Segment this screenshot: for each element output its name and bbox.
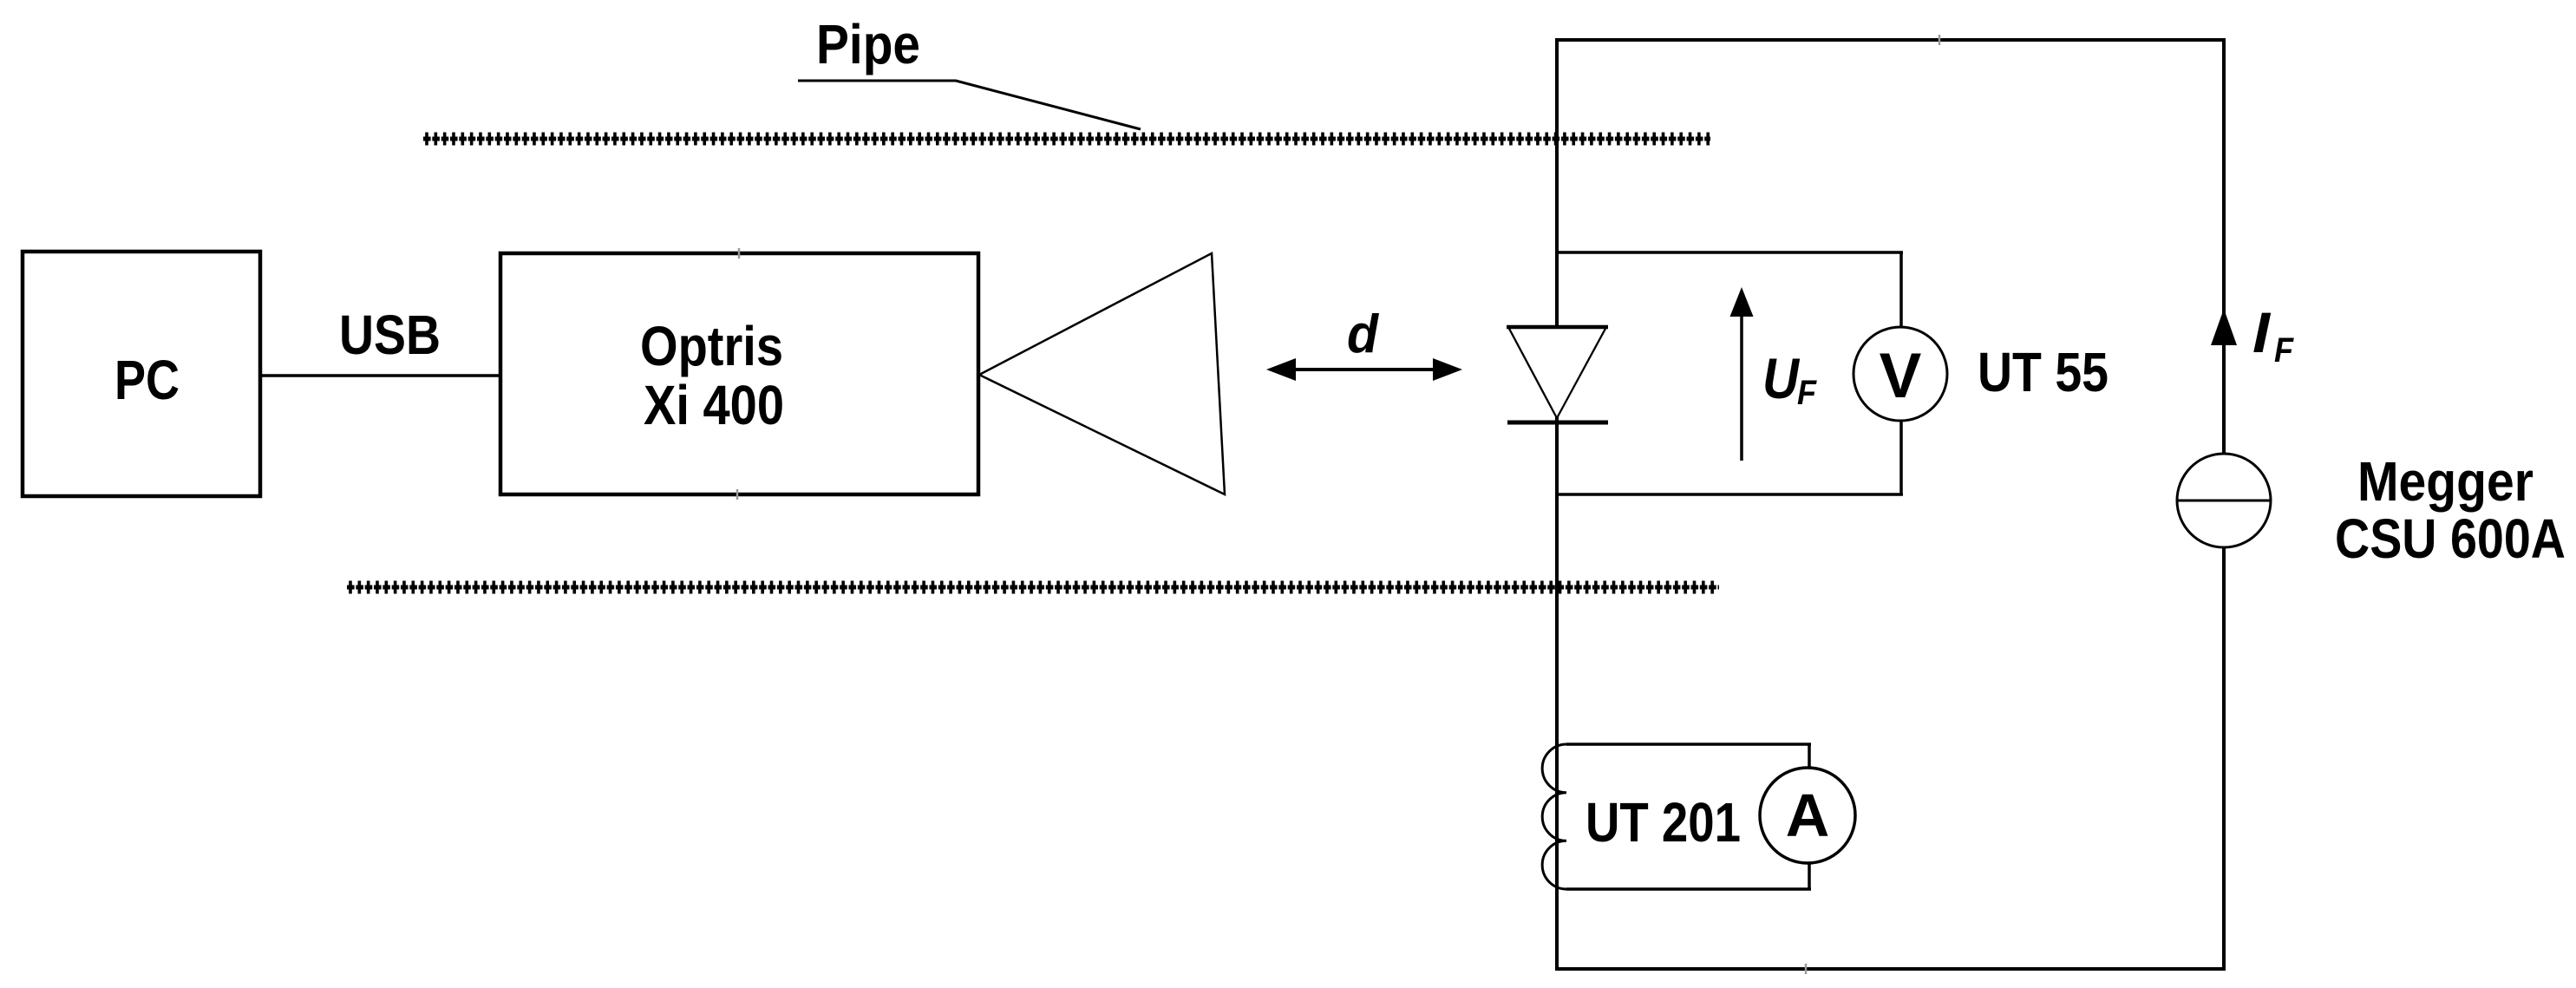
arrow distance d (double headed) [1266, 358, 1462, 381]
leader line from Pipe label to pipe wall [798, 81, 1141, 129]
wire USB (PC to Optris) [260, 374, 500, 377]
svg-text:d: d [1347, 304, 1379, 364]
wire main loop right lower (from source) [2222, 546, 2226, 969]
diode (tested LED) [1507, 327, 1608, 422]
svg-text:Megger: Megger [2357, 450, 2534, 513]
box PC [23, 252, 260, 496]
svg-text:Pipe: Pipe [816, 13, 920, 75]
svg-text:U: U [1762, 346, 1801, 410]
svg-text:F: F [2274, 331, 2294, 370]
wire main loop bottom [1555, 967, 2226, 971]
ammeter A (UT 201) [1760, 768, 1855, 863]
label I_F [2252, 300, 2294, 370]
arrow U_F (voltage arrow) [1730, 287, 1754, 461]
box camera Optris Xi 400 [500, 253, 978, 494]
svg-text:CSU 600A: CSU 600A [2335, 507, 2566, 570]
svg-text:Xi 400: Xi 400 [644, 374, 784, 436]
voltmeter measuring box [1557, 252, 1903, 494]
ammeter measuring box (UT 201) [1566, 744, 1811, 889]
svg-text:A: A [1786, 782, 1830, 849]
anchor tick on camera box top [738, 248, 741, 258]
anchor tick on loop bottom wire [1805, 964, 1808, 974]
label U_F [1762, 346, 1817, 412]
wire main loop left (through diode) [1555, 40, 1559, 969]
pipe wall top (hatched line) [423, 133, 1710, 146]
svg-text:PC: PC [114, 349, 180, 411]
pipe wall bottom (hatched line) [347, 581, 1719, 594]
voltmeter V (UT 55) [1854, 327, 1947, 421]
wire main loop top [1555, 38, 2226, 42]
svg-text:UT 201: UT 201 [1585, 791, 1741, 854]
current source Megger CSU 600A [2177, 454, 2271, 547]
svg-text:I: I [2252, 300, 2272, 364]
arrow I_F (current arrow on right wire) [2211, 309, 2237, 345]
lens field-of-view triangle [979, 253, 1225, 494]
wire main loop right upper (to source) [2222, 40, 2226, 455]
svg-text:Optris: Optris [640, 315, 783, 377]
svg-text:V: V [1880, 341, 1922, 411]
anchor tick on camera box bottom [736, 489, 739, 500]
anchor tick on loop top wire [1939, 35, 1941, 45]
svg-text:UT 55: UT 55 [1978, 341, 2109, 403]
current clamp coil (three arcs around wire) [1542, 744, 1566, 889]
label Optris Xi 400 [640, 315, 784, 436]
svg-text:F: F [1797, 374, 1817, 412]
svg-text:USB: USB [339, 304, 441, 366]
label Megger CSU 600A [2335, 450, 2566, 570]
